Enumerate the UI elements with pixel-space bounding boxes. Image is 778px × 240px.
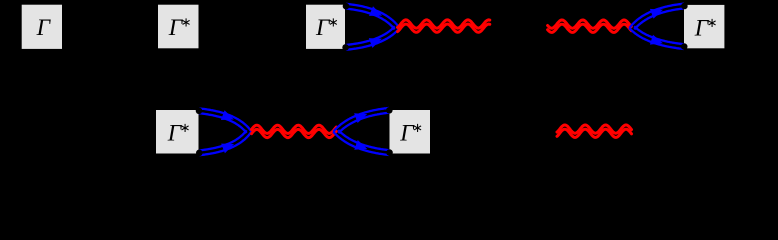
photon line (diagram 5) — [252, 125, 337, 137]
box Gamma* term 1 — [158, 5, 199, 49]
vertex dot lower (diagram 4) — [681, 43, 688, 50]
photon propagator (diagram 6) — [557, 125, 632, 137]
quark leg upper-left (diagram 5) — [199, 108, 252, 133]
box Gamma* term 3 — [684, 5, 724, 48]
box Gamma (full amplitude) — [22, 5, 62, 49]
quark leg upper (diagram 3) — [346, 4, 400, 30]
antiquark leg lower (diagram 3) — [345, 26, 399, 50]
svg-text:Γ: Γ — [36, 15, 52, 41]
vertex dot lower-left (diagram 5) — [196, 150, 203, 157]
box Gamma* left (diagram 5) — [156, 110, 199, 154]
photon line (diagram 3) — [398, 20, 490, 32]
antiquark leg lower-right (diagram 5) — [333, 130, 390, 155]
vertex dot upper-left (diagram 5) — [196, 108, 203, 115]
quark leg upper (diagram 4) — [629, 4, 684, 30]
antiquark leg lower (diagram 4) — [629, 26, 684, 49]
vertex dot upper (diagram 4) — [681, 3, 688, 10]
vertex dot upper (diagram 3) — [343, 3, 350, 10]
quark leg upper-right (diagram 5) — [333, 108, 389, 133]
antiquark leg lower-left (diagram 5) — [199, 130, 251, 155]
box Gamma* right (diagram 5) — [390, 110, 431, 154]
vertex dot upper-right (diagram 5) — [386, 107, 393, 114]
vertex dot lower-right (diagram 5) — [386, 149, 393, 156]
vertex dot lower (diagram 3) — [342, 44, 349, 51]
photon line (diagram 4) — [548, 20, 632, 32]
box Gamma* term 2 — [306, 5, 345, 49]
